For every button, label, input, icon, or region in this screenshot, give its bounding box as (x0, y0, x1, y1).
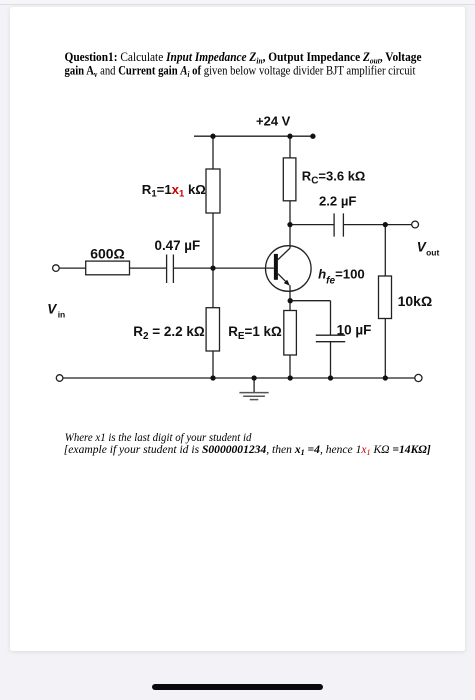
svg-text:0.47 µF: 0.47 µF (155, 238, 201, 253)
svg-text:R2 = 2.2 kΩ: R2 = 2.2 kΩ (133, 324, 205, 342)
svg-text:RC=3.6 kΩ: RC=3.6 kΩ (302, 169, 366, 187)
svg-text:[example if your student id is: [example if your student id is S00000012… (64, 444, 431, 457)
svg-text:V: V (47, 302, 57, 317)
svg-text:Where x1 is the last digit of: Where x1 is the last digit of your stude… (65, 432, 252, 444)
svg-text:600Ω: 600Ω (90, 245, 125, 261)
svg-text:10 µF: 10 µF (337, 323, 372, 338)
svg-text:out: out (426, 248, 439, 258)
svg-text:+24 V: +24 V (256, 113, 291, 128)
svg-text:2.2 µF: 2.2 µF (319, 194, 356, 209)
svg-text:in: in (58, 309, 66, 319)
svg-text:hfe=100: hfe=100 (318, 266, 365, 286)
svg-text:10kΩ: 10kΩ (398, 293, 433, 309)
svg-text:RE=1 kΩ: RE=1 kΩ (228, 324, 282, 342)
svg-text:gain Av and Current gain Ai of: gain Av and Current gain Ai of given bel… (65, 62, 416, 79)
svg-text:R1=1x1 kΩ: R1=1x1 kΩ (142, 182, 207, 200)
